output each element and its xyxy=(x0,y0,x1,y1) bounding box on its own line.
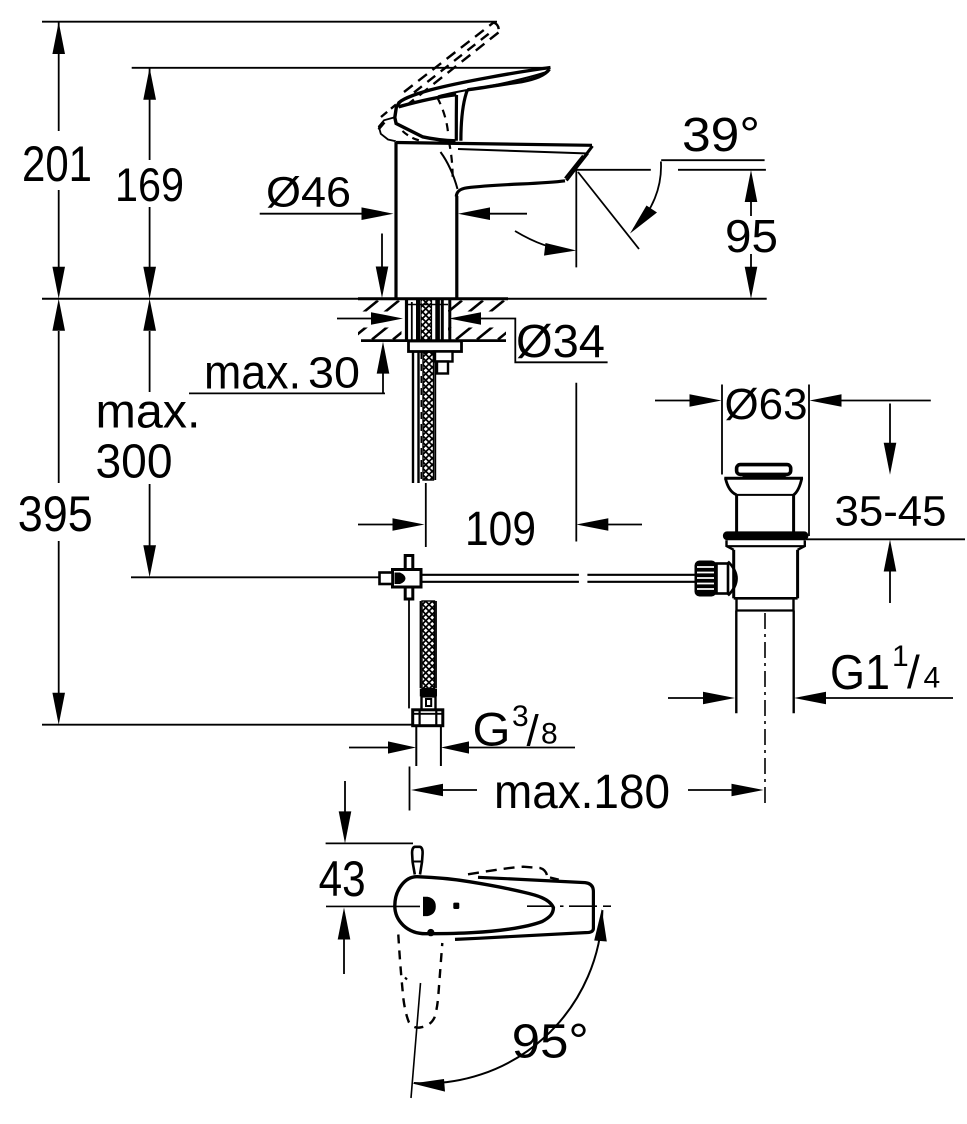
mounting nut step3 xyxy=(437,362,448,374)
svg-text:Ø46: Ø46 xyxy=(266,169,351,217)
top view dashed spout xyxy=(398,935,442,1028)
waste upper body xyxy=(735,495,738,532)
mounting nut flange xyxy=(409,341,462,352)
pop-up rod cross fitting xyxy=(380,556,422,600)
angle 39 arc arrowhead xyxy=(630,206,657,234)
open lever dashed tip xyxy=(494,23,499,33)
pop-up waste cap xyxy=(737,465,791,475)
waste flange top xyxy=(724,477,803,480)
angle 39 label underline xyxy=(661,159,764,161)
spout underside xyxy=(456,181,565,197)
open lever dashes near pivot xyxy=(381,105,396,118)
dimension G3/8 left arrow xyxy=(349,747,389,749)
reference line: gasket plane (35-45) xyxy=(806,538,965,540)
spout top inner line xyxy=(458,149,589,154)
deck top thick segment xyxy=(358,297,508,300)
dimension 43 upper arrow xyxy=(344,781,346,812)
dome front silhouette xyxy=(395,102,456,141)
lever neck left edge xyxy=(455,95,458,141)
svg-text:max.180: max.180 xyxy=(494,766,670,819)
angle 95 bottom arrowhead xyxy=(413,1079,446,1092)
dimension 201 line xyxy=(58,22,60,268)
top view centerline left xyxy=(326,905,420,907)
body bulge at rod connection xyxy=(728,562,737,596)
dimension D63 extension lines xyxy=(721,385,723,475)
dimension G1 1/4 left arrow xyxy=(668,697,704,699)
reference line: bottom of supply pipe (395) xyxy=(42,724,412,726)
tailpipe collar xyxy=(735,598,737,610)
tailpipe xyxy=(735,611,737,714)
svg-text:/: / xyxy=(907,646,920,698)
pop-up rod lower vertical xyxy=(408,599,410,708)
deck bottom line xyxy=(361,339,506,342)
top view handle grip outline xyxy=(455,877,593,939)
reference line: top of open lever (201) xyxy=(42,21,497,23)
svg-text:4: 4 xyxy=(924,662,941,695)
open lever dashed middle xyxy=(414,34,489,93)
pop-up waste cap lip xyxy=(743,475,786,478)
dimension 43 top tick line xyxy=(326,842,413,844)
supply hose lower braid xyxy=(422,601,435,689)
svg-text:95: 95 xyxy=(725,210,778,262)
svg-text:395: 395 xyxy=(18,486,93,542)
top view lever blade and cap outline xyxy=(395,877,554,934)
top view small square dot xyxy=(453,903,459,909)
dimension max300 line xyxy=(149,331,151,546)
lever neck right edge xyxy=(461,90,468,141)
dimension 35-45 lower arrow xyxy=(889,571,891,603)
lower flange lip xyxy=(727,540,805,550)
water stream arrowhead xyxy=(544,243,576,256)
svg-text:Ø63: Ø63 xyxy=(725,380,808,429)
lever blade middle line xyxy=(438,72,547,96)
mounting stud through deck xyxy=(407,299,450,340)
top view dashed grip corner tail xyxy=(550,878,566,882)
spout angle diagonal xyxy=(578,172,639,249)
dimension max300 arrows xyxy=(143,299,156,578)
dome left facet xyxy=(379,117,396,141)
reference line: deck top xyxy=(42,298,767,300)
svg-text:30: 30 xyxy=(308,348,360,397)
dimension 169 arrows xyxy=(143,68,156,299)
svg-text:35-45: 35-45 xyxy=(835,488,947,536)
dimension max180 right arrow xyxy=(688,789,733,791)
dimension max180 extension line left xyxy=(409,767,411,811)
dimension 35-45 upper arrow xyxy=(889,404,891,445)
tailpipe centerline xyxy=(764,613,766,806)
dimension 109 right xyxy=(606,524,642,526)
horizontal pop-up rod left segment xyxy=(421,575,579,582)
lever blade top edge xyxy=(399,68,551,104)
water stream arc xyxy=(515,231,570,251)
supply hose upper braid xyxy=(423,352,434,480)
dimension 395 line xyxy=(58,331,60,693)
waste body bottom xyxy=(734,597,798,600)
dimension D46 leader right xyxy=(488,213,527,215)
open lever dashed upper edge xyxy=(404,23,494,93)
svg-text:201: 201 xyxy=(22,136,92,192)
coupling nut G3/8 xyxy=(413,710,443,726)
waste lower body xyxy=(732,550,735,599)
angle 95 top arrowhead xyxy=(594,909,607,942)
dimension max30 lower arrow and leader xyxy=(382,374,384,394)
dimension 109 left xyxy=(358,524,394,526)
angle 39 horizontal arm xyxy=(572,169,651,171)
spout outlet extension for 109 xyxy=(575,383,577,542)
top view cartridge D mark xyxy=(423,897,436,916)
svg-text:43: 43 xyxy=(319,851,366,907)
dimension max180 left arrow xyxy=(441,789,477,791)
spout outlet vertical extension xyxy=(575,170,577,268)
top view lever pin xyxy=(412,847,423,875)
dimension 95 arrows xyxy=(745,170,758,299)
reference line: top of closed lever (169) xyxy=(132,67,548,69)
dimension D34 leader elbow xyxy=(479,319,608,363)
svg-text:max.: max. xyxy=(204,346,301,399)
spout centerline xyxy=(411,983,421,1098)
knob connector xyxy=(717,564,729,594)
svg-text:G1: G1 xyxy=(830,646,890,700)
dimension D46 leader left xyxy=(260,213,363,215)
dimension 95 line xyxy=(750,201,752,268)
stud threaded strip xyxy=(421,299,432,340)
dimension 169 line xyxy=(149,68,151,268)
hose end ferrule xyxy=(420,689,437,697)
dimension 43 lower arrow xyxy=(343,938,345,974)
supply pipe end xyxy=(415,726,417,766)
waste flange sides xyxy=(726,478,737,495)
top view centerline right dash-dot xyxy=(527,905,611,907)
dimension max30 upper arrow xyxy=(381,234,383,268)
svg-text:/: / xyxy=(527,707,540,756)
knurled adjusting knob xyxy=(695,561,717,597)
svg-text:8: 8 xyxy=(541,718,558,751)
svg-text:109: 109 xyxy=(465,503,536,556)
counter/deck section hatching xyxy=(330,301,546,340)
dimension D63 left arrow xyxy=(655,400,691,402)
svg-text:39°: 39° xyxy=(682,109,760,162)
dimension D34 arrows xyxy=(337,318,373,320)
spout outlet face xyxy=(565,146,593,181)
svg-text:Ø34: Ø34 xyxy=(516,315,605,367)
svg-text:300: 300 xyxy=(96,436,173,489)
pop-up rod channel upper xyxy=(412,352,414,484)
faucet body right edge xyxy=(455,196,458,298)
top view dashed alternate grip xyxy=(468,867,547,877)
svg-text:169: 169 xyxy=(115,158,184,211)
dimension D63 right arrow xyxy=(839,400,931,402)
reference line: pop-up rod level (max300) xyxy=(131,576,380,578)
faucet body / spout top edge xyxy=(396,143,592,146)
spout centerline dot xyxy=(405,978,407,980)
hose end connector xyxy=(422,696,436,709)
dimension G3/8 right arrow and leader xyxy=(467,747,575,749)
dimension G1 1/4 right arrow xyxy=(825,697,953,699)
open lever dashed lower edge xyxy=(409,33,499,104)
cartridge hidden dashes xyxy=(437,97,448,136)
lever blade underside xyxy=(399,69,550,107)
faucet body left edge xyxy=(394,142,397,298)
horizontal pop-up rod right segment xyxy=(587,575,696,582)
spout-body junction curve xyxy=(441,152,458,189)
svg-text:max.: max. xyxy=(96,386,201,439)
dimension 201 arrows xyxy=(52,22,65,299)
hose centerline extension for 109 xyxy=(425,483,427,547)
hatch clearing strip for hole dimension xyxy=(334,312,402,328)
top view rod hole dot xyxy=(427,929,434,936)
waste flange seam xyxy=(737,494,794,496)
angle 39 arc xyxy=(634,162,662,230)
angle 95 arc xyxy=(414,910,603,1083)
gasket xyxy=(723,531,809,540)
mounting nut step2 xyxy=(434,352,453,362)
dimension 395 arrows xyxy=(52,299,65,725)
svg-text:G: G xyxy=(473,703,511,756)
svg-text:95°: 95° xyxy=(512,1016,589,1069)
